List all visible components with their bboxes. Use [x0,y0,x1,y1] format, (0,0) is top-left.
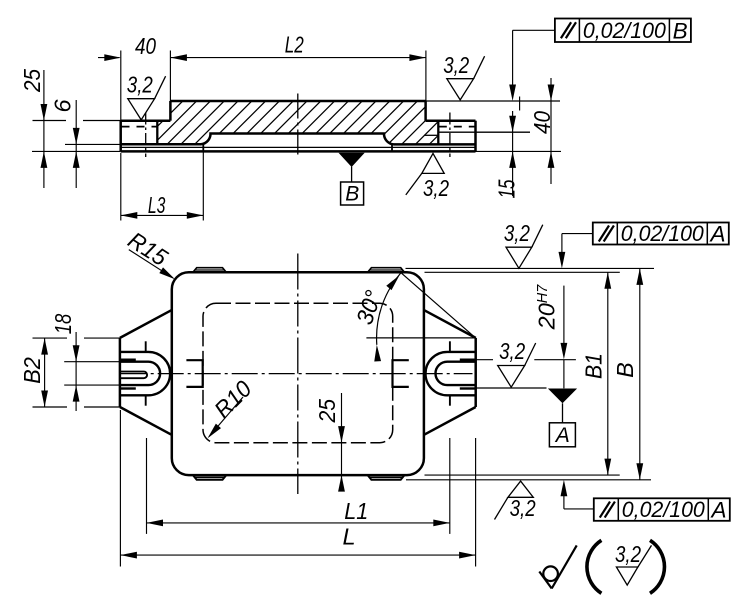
svg-text:40: 40 [135,33,156,59]
dimension 25 (plan) [341,393,343,490]
centre line horizontal [121,373,473,375]
roughness 3,2 top-right tab [447,79,474,100]
general surface finish note [539,572,551,589]
extension lines plan top right [406,267,655,269]
svg-text:25: 25 [19,68,45,93]
R15 label and leader [129,250,173,278]
section tab bottom faces [121,143,201,146]
roughness 3,2 at slot (right) [498,366,525,388]
right ear outline [474,338,477,407]
right ear slot outer contour [426,352,476,395]
dimension L [119,410,121,567]
right ear chamfer edges [449,341,451,352]
svg-text:0,02/100: 0,02/100 [622,497,705,522]
roughness 3,2 top-left tab [128,99,155,120]
right tab bore axis [449,113,451,158]
dimension 18 [75,332,77,411]
dimension B [639,268,641,479]
svg-text:B1: B1 [581,353,607,379]
roughness 3,2 bottom of section [422,153,444,173]
hidden slot lines (dashed) [122,126,158,128]
R10 label and leader [209,397,243,437]
left ear slot through-slot contour [121,362,161,385]
svg-text:18: 18 [50,314,76,335]
section outline: slab step edges [169,101,172,121]
svg-text:B2: B2 [19,357,45,384]
svg-text:3,2: 3,2 [615,541,641,567]
svg-text:L1: L1 [344,498,368,524]
tolerance frame A (top) with leader [561,234,563,255]
inner slot pocket bracket right [393,360,409,387]
roughness 3,2 top right [506,247,532,268]
section outline: tab top faces [121,119,171,122]
dimension B2 [44,338,46,407]
extension lines section [120,51,122,121]
edge boss top-right [368,268,405,273]
svg-text:3,2: 3,2 [127,72,153,98]
left ear slot chamfer stubs [121,359,136,361]
section pocket rear verticals [202,144,204,151]
tolerance frame A (bottom) with leader [563,494,565,509]
section outline: top face [170,100,425,103]
dimension L3 [121,214,204,216]
svg-text:25: 25 [314,398,340,423]
section bottom face [121,150,476,153]
dimension 15 (right) [512,111,514,196]
edge boss bottom-left [193,475,226,480]
edge boss bottom-right [368,475,405,480]
section outline: outer end faces [119,121,122,152]
edge boss top-left [193,268,226,273]
svg-text:B: B [673,18,688,43]
datum B symbol [339,153,365,167]
svg-text:3,2: 3,2 [443,52,469,78]
extension lines plan right (20H7) [476,359,493,361]
left tab bore axis [145,113,147,158]
counterbore line right tab [438,131,530,133]
30 degree horizontal leg [366,337,475,339]
dimension L2 [170,57,426,59]
dimension 6 [75,100,77,188]
section hatching [120,90,553,150]
main body outline [172,272,424,475]
svg-text:3,2: 3,2 [510,495,536,521]
extension lines plan left (18 / B2) [64,361,120,363]
svg-text:A: A [554,424,570,447]
svg-text:0,02/100: 0,02/100 [583,18,666,43]
svg-text:3,2: 3,2 [504,220,530,246]
roughness 3,2 bottom right [508,481,533,497]
datum A symbol [548,389,577,404]
section slot inner verticals [156,121,158,145]
tolerance frame B with leader [512,30,514,88]
dimension 40 (top left) [98,57,120,59]
right ear slot chamfer stubs [460,359,475,361]
svg-text:B: B [612,362,638,378]
svg-text:B: B [345,183,359,206]
svg-text:6: 6 [50,99,76,113]
inner slot pocket bracket left [186,360,202,387]
svg-text:L2: L2 [285,31,304,57]
svg-text:L3: L3 [148,192,166,218]
30 degree construction line [401,272,476,338]
dimension B1 [607,272,609,475]
right ear slot through-slot contour [436,362,476,385]
svg-text:3,2: 3,2 [499,338,525,364]
svg-text:0,02/100: 0,02/100 [621,221,704,246]
section rear edge (thin) [121,146,476,148]
svg-text:L: L [342,524,355,550]
left ear outline [119,338,122,407]
svg-text:40: 40 [529,111,555,134]
centre line vertical [297,254,299,495]
svg-text:A: A [710,498,727,523]
30 degree arc [377,270,404,344]
label 20 H7 with leader [563,286,565,346]
dimension 25 (section) [43,70,45,188]
section centre line [297,94,299,159]
left ear chamfer edges [145,341,147,352]
dashed pocket outline [203,303,393,442]
extension lines plan bottom right [425,474,620,476]
dimension L1 [146,438,148,534]
svg-text:A: A [709,222,726,247]
left ear slot outer contour [121,352,171,395]
left ear slot small contour [121,372,148,379]
section relief pocket ceiling with fillets [201,134,394,145]
svg-text:3,2: 3,2 [423,175,449,201]
dimension 40 (right) [550,78,552,184]
svg-text:15: 15 [494,179,520,199]
